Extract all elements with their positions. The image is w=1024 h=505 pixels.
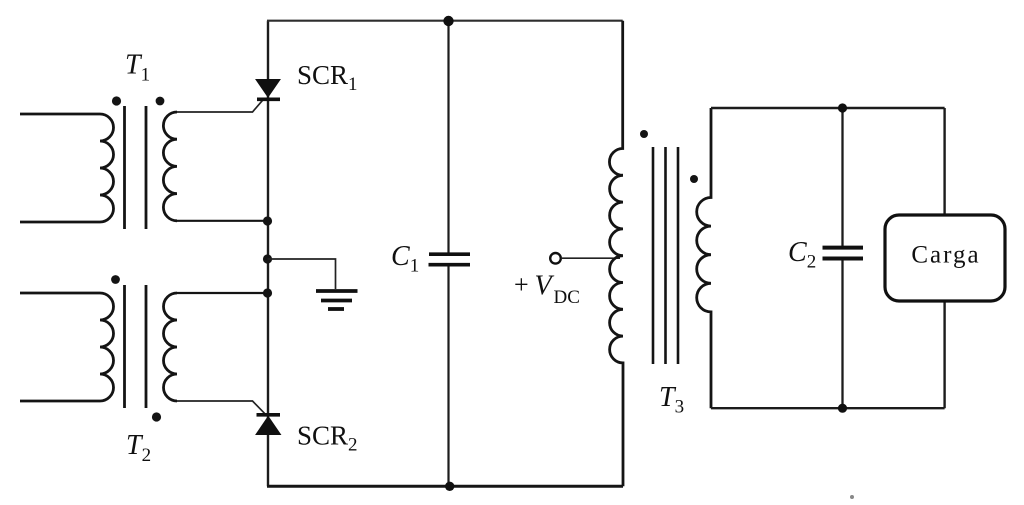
transformer T3 secondary polarity dot [690, 175, 698, 183]
transformer T3 secondary winding [697, 108, 711, 408]
ground [316, 291, 358, 309]
junction node top rail / C1 [443, 16, 453, 26]
thyristor SCR2 [256, 415, 281, 435]
terminal +VDC [550, 253, 561, 264]
transformer T2 core [125, 285, 147, 408]
thyristor SCR1 [256, 80, 280, 100]
wire to ground [268, 259, 336, 289]
svg-text:+: + [514, 270, 529, 299]
transformer T2 primary polarity dot [111, 275, 120, 284]
transformer T2 secondary winding [164, 293, 178, 401]
wire bottom rail [267, 485, 623, 488]
transformer T3 primary winding [609, 21, 623, 487]
wire top rail [267, 20, 623, 22]
load box Carga [885, 215, 1005, 301]
transformer T2 primary winding [20, 293, 114, 401]
wire +VDC to T3 center tap [561, 257, 620, 259]
transformer T3 core [653, 147, 678, 364]
wire load branch vertical [943, 108, 945, 408]
wire capacitor C2 branch [841, 108, 843, 408]
capacitor C1 [429, 254, 471, 265]
svg-text:Carga: Carga [911, 242, 980, 269]
stray scan dot [850, 495, 854, 499]
wire main left vertical (SCR branch) [267, 21, 269, 487]
svg-text:DC: DC [554, 287, 580, 308]
wire T1 secondary bottom lead to node [177, 220, 268, 222]
capacitor C2 [823, 248, 864, 259]
wire output bottom rail [711, 407, 945, 409]
junction node ground tap [263, 254, 272, 263]
transformer T1 secondary polarity dot [156, 97, 165, 106]
transformer T1 core [125, 106, 147, 229]
transformer T1 primary winding [20, 114, 114, 222]
wire output top rail [711, 107, 945, 109]
junction node T1 bottom [263, 216, 272, 225]
transformer T1 secondary winding [163, 112, 177, 221]
svg-text:V: V [535, 270, 555, 301]
junction node bottom rail / C1 [445, 482, 454, 491]
wire T2 secondary top lead to node [177, 292, 268, 294]
wire T2 secondary bottom lead to SCR2 gate [177, 401, 265, 414]
wire capacitor C1 branch [447, 21, 449, 487]
junction node top rail / C2 [838, 103, 847, 112]
wire T1 secondary top lead to SCR1 gate [177, 100, 263, 112]
junction node bottom rail / C2 [838, 404, 847, 413]
transformer T3 primary polarity dot [640, 130, 648, 138]
transformer T1 primary polarity dot [112, 96, 121, 105]
transformer T2 secondary polarity dot [152, 412, 161, 421]
junction node T2 top [263, 288, 272, 297]
